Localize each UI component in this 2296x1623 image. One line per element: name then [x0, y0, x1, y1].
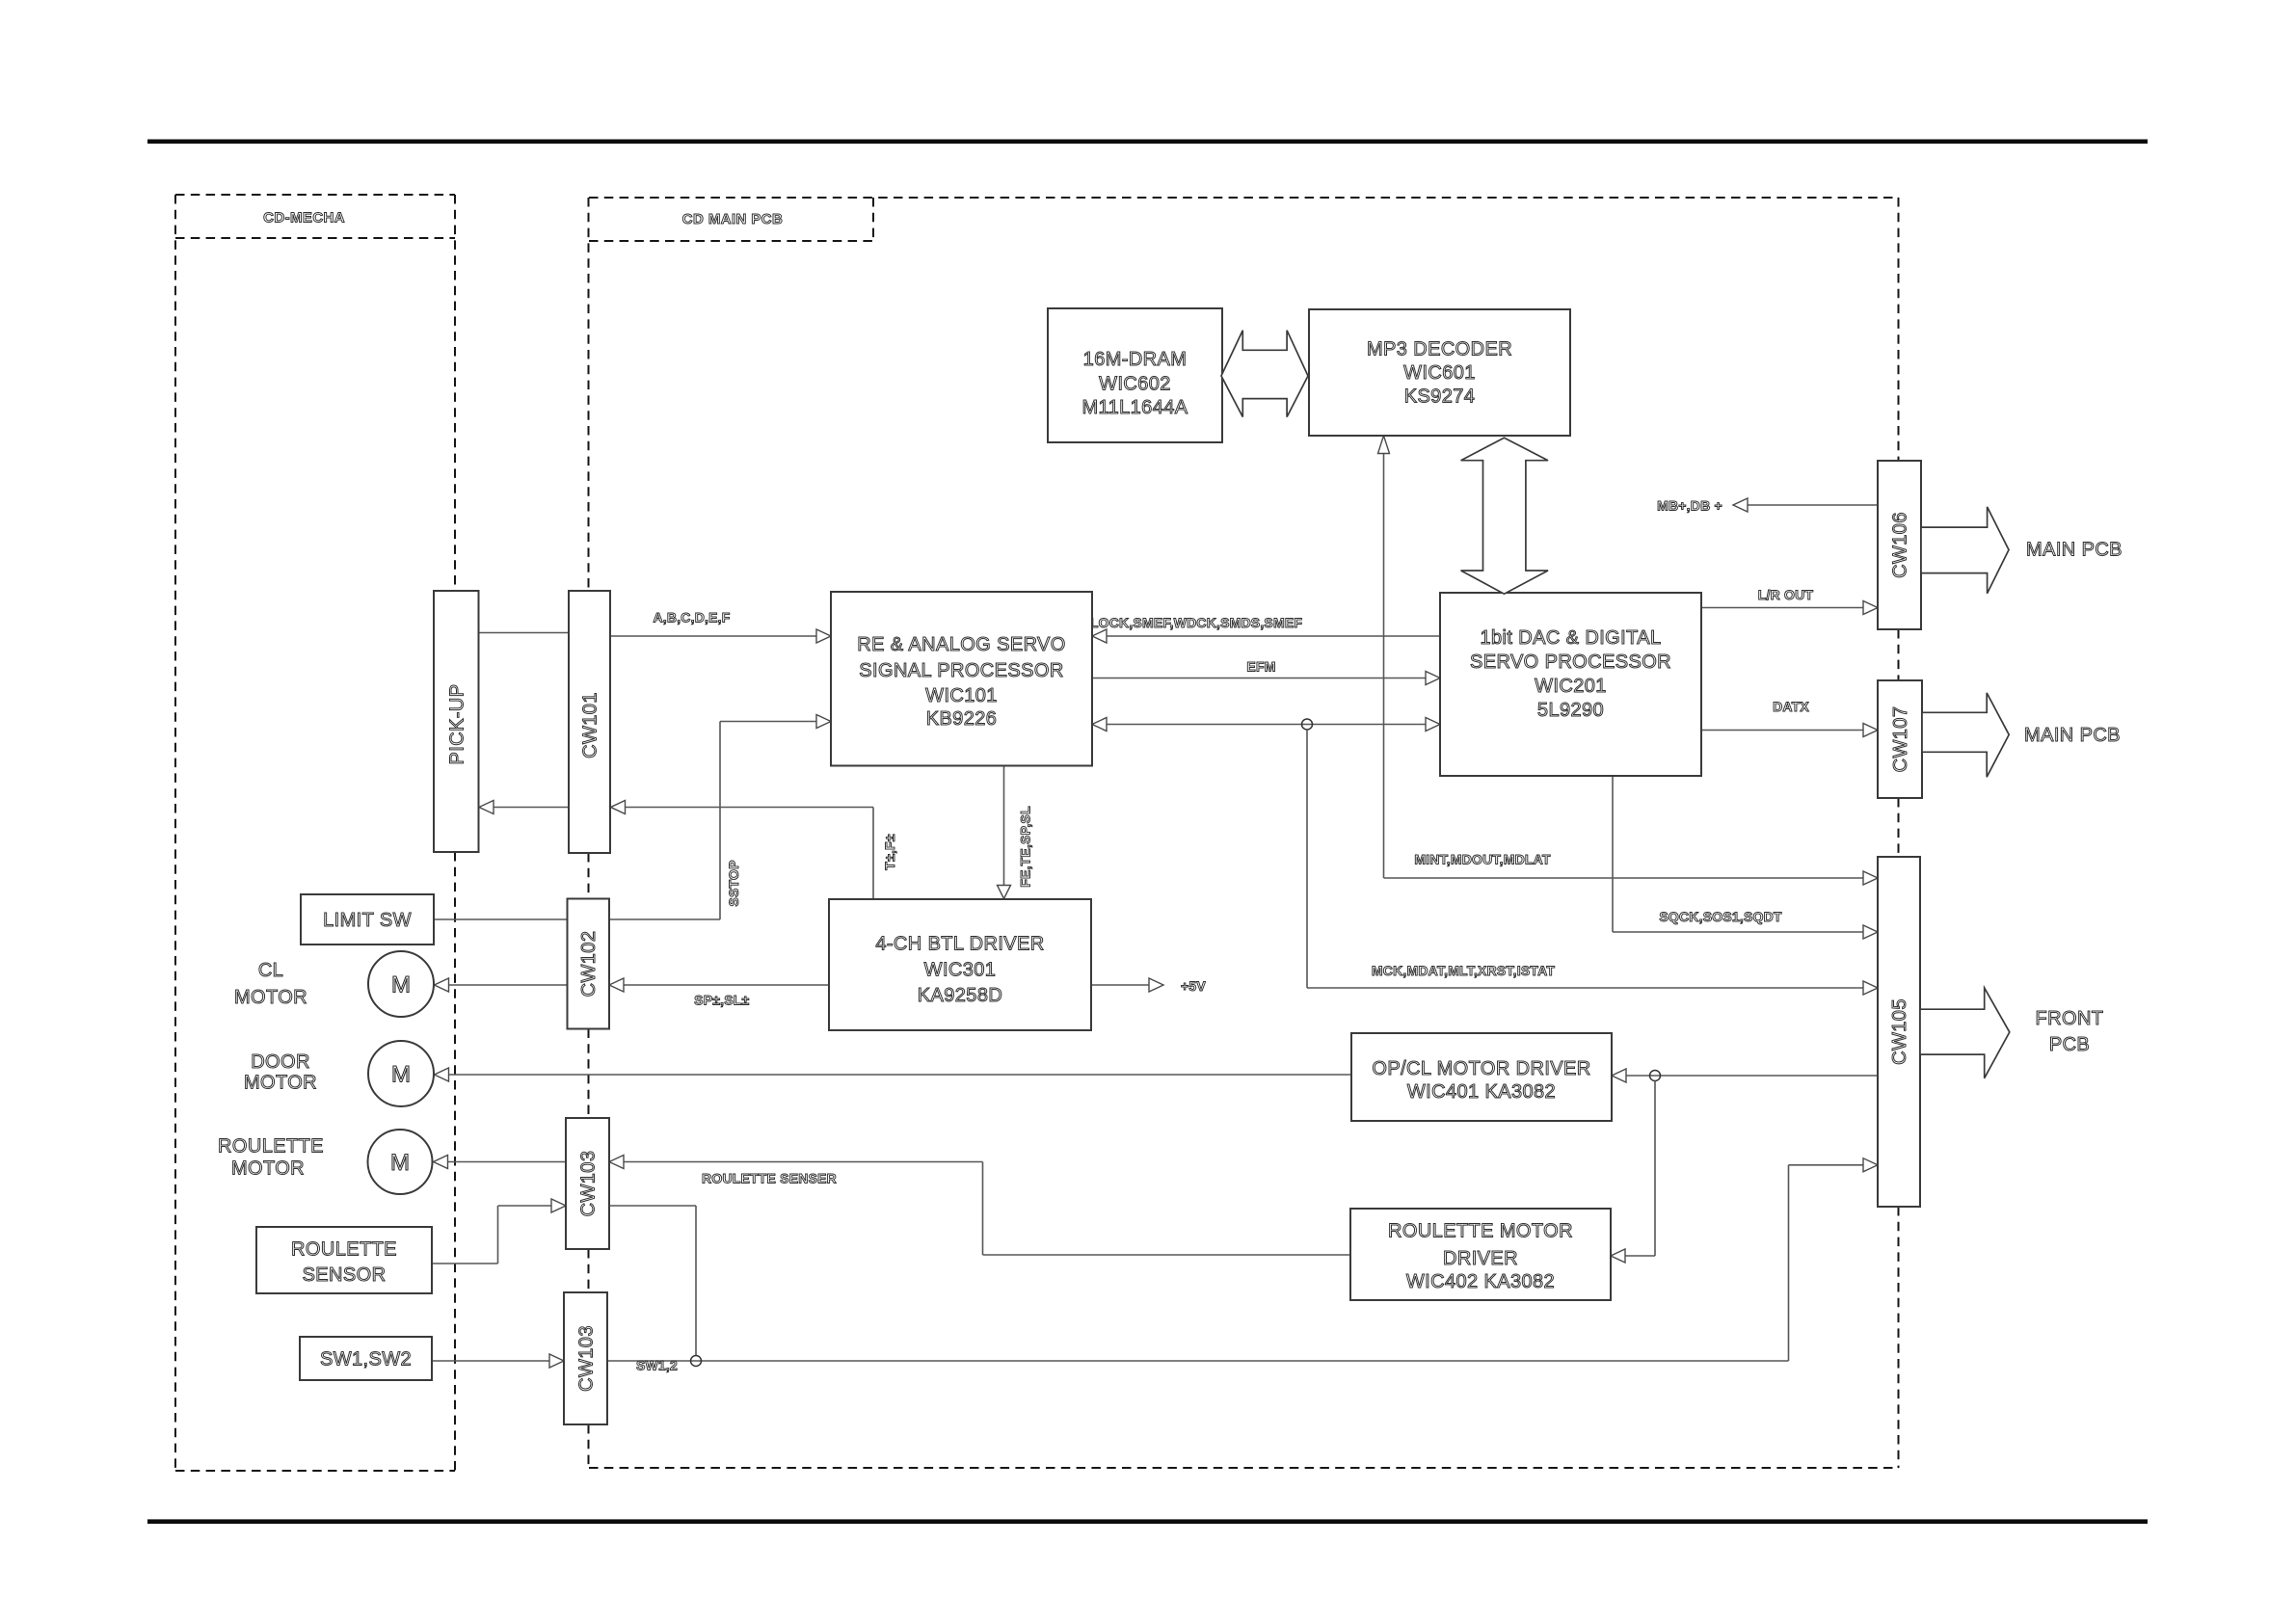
wire DATX [1701, 730, 1864, 732]
svg-text:SW1,SW2: SW1,SW2 [320, 1349, 412, 1370]
svg-text:+5V: +5V [1181, 978, 1206, 994]
svg-text:T±,F±: T±,F± [882, 834, 897, 869]
svg-text:DOOR: DOOR [251, 1051, 310, 1073]
svg-text:WIC401 KA3082: WIC401 KA3082 [1407, 1081, 1556, 1103]
svg-text:MINT,MDOUT,MDLAT: MINT,MDOUT,MDLAT [1414, 852, 1551, 867]
dashed region CD MAIN PCB [589, 197, 1899, 199]
wire CW103 to ROULETTE motor [447, 1161, 566, 1163]
wire L/R OUT [1701, 607, 1864, 609]
svg-text:ROULETTE: ROULETTE [291, 1239, 397, 1261]
block PICK-UP [434, 591, 479, 852]
block LIMIT SW [301, 894, 434, 945]
svg-text:WIC301: WIC301 [924, 960, 997, 981]
svg-text:M: M [391, 972, 411, 998]
svg-text:CD-MECHA: CD-MECHA [263, 209, 345, 226]
connector CW105 [1878, 857, 1920, 1207]
svg-text:WIC201: WIC201 [1535, 676, 1607, 697]
svg-text:SW1,2: SW1,2 [636, 1358, 678, 1373]
block arrow MAIN PCB lower [1922, 693, 2009, 777]
node junction near DAC [1302, 719, 1313, 730]
page rule bottom [147, 1519, 2148, 1524]
wire LOCK,SMEF,WDCK,SMDS,SMEF [1107, 635, 1440, 637]
svg-text:SIGNAL PROCESSOR: SIGNAL PROCESSOR [859, 660, 1063, 681]
wire branch down to roulette driver [1625, 1081, 1655, 1257]
svg-text:PICK-UP: PICK-UP [446, 684, 467, 765]
svg-text:OP/CL MOTOR DRIVER: OP/CL MOTOR DRIVER [1372, 1058, 1590, 1079]
wire SP+-,SL+- BTL to CW102 [624, 984, 829, 986]
svg-text:EFM: EFM [1246, 659, 1275, 675]
svg-text:RE & ANALOG SERVO: RE & ANALOG SERVO [857, 634, 1066, 655]
svg-text:MP3 DECODER: MP3 DECODER [1367, 338, 1512, 359]
wire OP/CL to DOOR motor [448, 1074, 1351, 1076]
block arrow FRONT PCB [1920, 988, 2010, 1078]
svg-text:M: M [391, 1062, 411, 1088]
svg-text:CW106: CW106 [1890, 512, 1911, 578]
wire T+-,F+- vertical [872, 808, 874, 900]
svg-text:PCB: PCB [2049, 1034, 2090, 1055]
svg-text:DRIVER: DRIVER [1443, 1248, 1518, 1269]
wire CW102 to CL motor [448, 984, 568, 986]
block arrow MAIN PCB upper [1921, 507, 2009, 594]
wire FE,TE,SP,SL RE to BTL [1003, 766, 1005, 887]
block 16M-DRAM WIC602 [1048, 308, 1222, 442]
wire PICK-UP to CW101 link [479, 632, 570, 634]
svg-text:CW102: CW102 [578, 931, 600, 998]
svg-text:FE,TE,SP,SL: FE,TE,SP,SL [1017, 806, 1032, 888]
svg-text:WIC101: WIC101 [925, 685, 998, 706]
node junction SW1,2 [691, 1356, 702, 1367]
connector CW102 [568, 899, 610, 1029]
dashed region CD-MECHA [175, 194, 455, 196]
bus arrow DRAM-MP3 bidirectional [1221, 331, 1308, 417]
wire CW103 tap down to SW line [609, 1206, 696, 1356]
block 4-CH BTL DRIVER WIC301 [829, 899, 1091, 1030]
connector CW101 [569, 591, 610, 853]
svg-text:5L9290: 5L9290 [1537, 700, 1604, 721]
wire ROULETTE SENSER CW103 to driver [624, 1162, 1350, 1256]
wire feedback to CW101 and PICK-UP [626, 807, 874, 809]
svg-text:SP±,SL±: SP±,SL± [694, 993, 749, 1008]
svg-text:KB9226: KB9226 [926, 708, 998, 730]
svg-text:1bit DAC & DIGITAL: 1bit DAC & DIGITAL [1481, 627, 1662, 649]
block OP/CL MOTOR DRIVER WIC401 [1351, 1033, 1612, 1121]
wire MB+,DB + [1748, 504, 1878, 506]
svg-text:16M-DRAM: 16M-DRAM [1083, 349, 1188, 370]
svg-text:MOTOR: MOTOR [244, 1073, 317, 1094]
svg-text:MOTOR: MOTOR [231, 1158, 305, 1180]
motor DOOR [368, 1041, 434, 1106]
block ROULETTE SENSOR [256, 1227, 432, 1293]
svg-text:DATX: DATX [1773, 699, 1809, 714]
svg-text:ROULETTE: ROULETTE [218, 1135, 324, 1157]
wire SQCK,SOS1,SQDT [1613, 776, 1864, 932]
svg-text:4-CH BTL DRIVER: 4-CH BTL DRIVER [875, 934, 1044, 955]
connector CW107 [1878, 680, 1922, 798]
svg-text:M11L1644A: M11L1644A [1082, 397, 1188, 418]
svg-text:ROULETTE MOTOR: ROULETTE MOTOR [1388, 1221, 1573, 1242]
svg-text:LOCK,SMEF,WDCK,SMDS,SMEF: LOCK,SMEF,WDCK,SMDS,SMEF [1090, 615, 1302, 630]
svg-text:CW107: CW107 [1890, 706, 1911, 773]
svg-text:KA9258D: KA9258D [918, 985, 1002, 1006]
svg-text:MOTOR: MOTOR [234, 987, 307, 1008]
svg-text:CW101: CW101 [580, 692, 601, 758]
svg-text:CD MAIN PCB: CD MAIN PCB [682, 211, 783, 227]
svg-text:MB+,DB +: MB+,DB + [1657, 497, 1722, 513]
svg-text:ROULETTE SENSER: ROULETTE SENSER [702, 1171, 837, 1186]
wire CW105 to OP/CL driver [1626, 1075, 1878, 1077]
connector CW103 upper [566, 1118, 609, 1249]
svg-text:CW103: CW103 [578, 1151, 600, 1217]
motor CL [368, 951, 434, 1017]
wire EFM [1092, 678, 1427, 679]
svg-text:MAIN PCB: MAIN PCB [2026, 540, 2122, 561]
svg-text:MCK,MDAT,MLT,XRST,ISTAT: MCK,MDAT,MLT,XRST,ISTAT [1372, 963, 1555, 978]
motor ROULETTE [368, 1130, 433, 1194]
wire node down [1306, 730, 1308, 988]
wire MCK,MDAT,MLT,XRST,ISTAT [1307, 987, 1864, 989]
svg-text:CW103: CW103 [576, 1325, 598, 1392]
svg-text:FRONT: FRONT [2036, 1008, 2104, 1029]
wire A,B,C,D,E,F [610, 635, 817, 637]
wire ROULETTE SENSOR to CW103 [432, 1206, 551, 1264]
block MP3 DECODER WIC601 [1309, 309, 1570, 436]
svg-text:A,B,C,D,E,F: A,B,C,D,E,F [654, 610, 731, 625]
svg-text:L/R OUT: L/R OUT [1758, 587, 1814, 602]
svg-text:LIMIT SW: LIMIT SW [323, 910, 412, 931]
page rule top [147, 140, 2148, 145]
node junction OP/CL branch [1650, 1071, 1661, 1081]
wire LIMIT SW to CW102 [434, 918, 720, 920]
svg-text:MAIN PCB: MAIN PCB [2024, 725, 2121, 746]
svg-text:SQCK,SOS1,SQDT: SQCK,SOS1,SQDT [1659, 909, 1782, 924]
wire +5V [1091, 984, 1150, 986]
svg-text:SERVO PROCESSOR: SERVO PROCESSOR [1470, 652, 1671, 673]
block 1bit DAC WIC201 [1440, 593, 1701, 776]
svg-text:SENSOR: SENSOR [303, 1264, 387, 1286]
svg-text:WIC601: WIC601 [1403, 362, 1476, 384]
wire node line into RE right [1107, 724, 1427, 726]
wire SW1,SW2 to CW103 [432, 1360, 549, 1362]
wire MINT,MDOUT,MDLAT with up arrow to MP3 [1384, 453, 1865, 878]
svg-text:CW105: CW105 [1889, 998, 1910, 1065]
svg-text:SSTOP: SSTOP [726, 860, 741, 906]
block RE &amp; ANALOG SERVO WIC101 [831, 592, 1092, 766]
block ROULETTE MOTOR DRIVER WIC402 [1350, 1209, 1611, 1300]
svg-text:WIC602: WIC602 [1099, 374, 1171, 395]
block SW1,SW2 [300, 1337, 432, 1380]
wire SW1,2 run to CW105 [607, 1165, 1864, 1361]
connector CW103 lower [564, 1292, 607, 1424]
bus arrow MP3-DAC bidirectional [1461, 438, 1548, 594]
svg-text:WIC402 KA3082: WIC402 KA3082 [1406, 1271, 1555, 1292]
connector CW106 [1878, 461, 1921, 629]
svg-text:CL: CL [258, 960, 283, 981]
svg-text:M: M [390, 1150, 410, 1176]
wire SSTOP [720, 722, 817, 920]
svg-text:KS9274: KS9274 [1404, 386, 1476, 407]
